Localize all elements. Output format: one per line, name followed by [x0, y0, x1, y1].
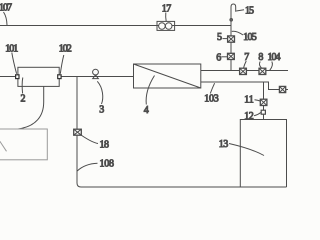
connector 101 (port)	[16, 75, 19, 79]
wire: leader 18	[81, 135, 98, 144]
svg-text:13: 13	[219, 139, 229, 150]
svg-text:2: 2	[21, 94, 26, 105]
svg-text:6: 6	[216, 53, 221, 64]
wire: leader 6	[221, 56, 227, 58]
svg-text:102: 102	[59, 44, 72, 55]
wire: riser at x=231 (from hook down to pipe)	[230, 21, 232, 71]
wire: leader 2	[21, 78, 24, 94]
wire: leader 108	[77, 163, 97, 171]
wire: branch down to tank 13	[263, 82, 265, 120]
wire: leader 3	[97, 81, 102, 104]
pump 3	[93, 69, 99, 78]
valve (right edge drain)	[279, 86, 285, 92]
wire: leader 105	[232, 31, 243, 35]
blower 17	[157, 21, 175, 30]
svg-text:12: 12	[244, 111, 254, 122]
valve 18	[74, 129, 82, 135]
svg-text:15: 15	[245, 5, 254, 16]
svg-text:108: 108	[100, 159, 115, 170]
wire: leader 5	[223, 38, 228, 40]
wire: leader 101	[12, 53, 17, 74]
wire: drain branch down from pipe to bottom line	[77, 77, 287, 188]
svg-text:8: 8	[258, 52, 263, 63]
valve 5	[228, 36, 235, 42]
wire: leader 107	[4, 12, 8, 25]
svg-text:105: 105	[243, 32, 257, 43]
svg-text:17: 17	[162, 4, 172, 15]
wire: leader 12	[254, 112, 261, 115]
wire: leader 7	[244, 61, 247, 68]
wire: diagonal mark in tank 1	[0, 139, 7, 152]
heat exchanger 2	[18, 67, 59, 86]
valve 8	[259, 68, 266, 74]
svg-text:18: 18	[100, 140, 110, 151]
wire: leader 8	[259, 62, 261, 68]
valve 7	[240, 68, 247, 74]
svg-text:7: 7	[244, 52, 249, 63]
valve 6	[228, 53, 235, 59]
valve 11	[260, 99, 267, 105]
wire: leader 11	[255, 100, 261, 101]
relief handle 15	[230, 4, 236, 21]
tank 13	[240, 120, 286, 188]
svg-text:4: 4	[144, 105, 149, 116]
wire: leader 4	[146, 76, 154, 105]
wire: leader 102	[60, 55, 64, 74]
membrane unit 4	[134, 64, 201, 88]
wire: leader 104	[270, 62, 273, 71]
wire: leader 13	[229, 144, 264, 156]
connector 12 (tank inlet)	[261, 110, 265, 114]
wire: leader 17	[165, 13, 168, 22]
wire: leader 103	[210, 83, 214, 93]
wire: leader 15	[236, 10, 244, 11]
wire: main pipe (left, y=76.5)	[0, 76, 134, 78]
svg-text:103: 103	[204, 94, 219, 105]
wire: top pipe 107	[0, 25, 231, 27]
connector 102 (port)	[58, 75, 61, 79]
svg-text:107: 107	[0, 3, 12, 14]
wire: s-curve from unit 2 down to box 1	[18, 87, 44, 130]
svg-text:5: 5	[217, 32, 222, 43]
svg-text:104: 104	[268, 52, 281, 63]
svg-text:3: 3	[99, 105, 104, 116]
wire: permeate pipe (y=70.5)	[201, 70, 288, 72]
wire: concentrate pipe (y=82) to right edge	[201, 82, 288, 90]
svg-text:11: 11	[244, 95, 254, 106]
tank 1 (bottom-left box, lighter)	[0, 129, 47, 160]
